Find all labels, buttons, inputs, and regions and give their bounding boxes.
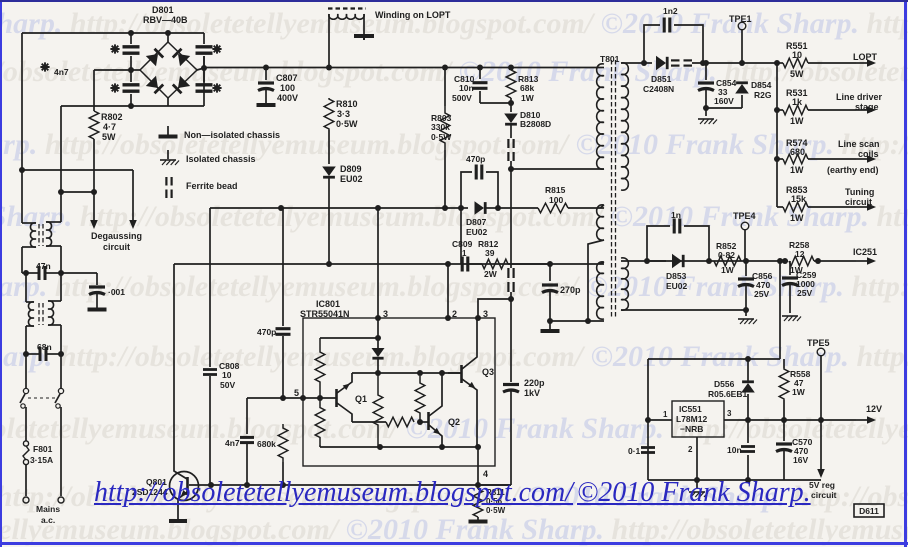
resistor R803 330k 0.5W — [442, 65, 448, 71]
IC551 pin 1 wire — [648, 419, 672, 421]
fuse F801 3.15A — [25, 407, 27, 441]
svg-text:Non—isolated chassis: Non—isolated chassis — [184, 130, 280, 140]
capacitor C259 1000 25V — [789, 261, 791, 275]
wire degauss branch upper — [22, 169, 133, 171]
svg-text:68n: 68n — [37, 342, 52, 352]
wire bridge left node — [94, 69, 140, 71]
degauss arrow right — [132, 170, 134, 221]
capacitor 4n7 marker with asterisk — [40, 62, 49, 71]
resistor R815 100 — [498, 207, 538, 209]
svg-text:47n: 47n — [36, 261, 51, 271]
capacitor C809 — [461, 257, 464, 272]
svg-text:1W: 1W — [790, 213, 804, 223]
svg-text:3: 3 — [383, 309, 388, 319]
svg-text:IC551: IC551 — [679, 404, 702, 414]
IC801 pin 3 — [375, 315, 381, 321]
ferrite bead on D851 output — [671, 59, 680, 61]
legend isolated chassis symbol — [167, 150, 169, 159]
capacitor X-cap bottom-left — [130, 70, 132, 82]
svg-text:C809: C809 — [452, 239, 473, 249]
svg-text:−NRB: −NRB — [680, 424, 703, 434]
svg-text:IC251: IC251 — [853, 247, 877, 257]
mains switch left pole — [25, 354, 27, 388]
resistor R258 12 1W to IC251 — [782, 258, 788, 264]
transistor Q801 2SD1244 — [170, 472, 199, 501]
diode D854 R2G — [735, 84, 749, 94]
diode D556 R05.6EB1 — [747, 359, 749, 381]
svg-text:1: 1 — [462, 249, 467, 258]
wire C808 column — [209, 208, 211, 367]
svg-text:TPE5: TPE5 — [807, 338, 830, 348]
capacitor 10n — [747, 420, 749, 443]
svg-text:EU02: EU02 — [466, 227, 488, 237]
svg-text:0·5W: 0·5W — [336, 119, 358, 129]
capacitor C570 470 16V — [783, 420, 785, 441]
wire secondary lower return — [621, 309, 746, 311]
wire right mains column upper — [60, 106, 62, 222]
resistor R551 10 5W to LOPT — [777, 62, 783, 64]
IC801 pin 1 — [475, 315, 481, 321]
svg-text:R2G: R2G — [754, 90, 772, 100]
legend non-isolated chassis symbol — [167, 126, 169, 135]
transistor Q2 — [427, 412, 430, 430]
svg-text:Degaussing: Degaussing — [91, 231, 142, 241]
svg-text:3·3: 3·3 — [337, 109, 350, 119]
svg-text:160V: 160V — [714, 96, 734, 106]
svg-text:10n: 10n — [727, 445, 742, 455]
svg-text:10: 10 — [222, 370, 232, 380]
asterisk mark — [110, 83, 119, 92]
svg-text:1n: 1n — [671, 210, 681, 220]
IC551 pin 2 ground — [696, 437, 698, 480]
resistor R558 47 1W — [783, 359, 785, 368]
svg-text:470p: 470p — [466, 154, 485, 164]
svg-text:TPE4: TPE4 — [733, 211, 756, 221]
wire mains right terminal — [60, 407, 62, 496]
wire rail B extension to 270p — [461, 263, 550, 265]
wire right column to 47n — [60, 246, 62, 273]
wire pin3 column — [377, 208, 379, 318]
capacitor X-cap bottom-right — [203, 70, 205, 82]
svg-text:400V: 400V — [277, 93, 298, 103]
svg-text:B2808D: B2808D — [520, 119, 551, 129]
svg-text:10: 10 — [792, 50, 802, 60]
svg-text:4n7: 4n7 — [225, 438, 240, 448]
T801 primary winding — [600, 67, 604, 69]
wire left mains column upper — [21, 33, 23, 223]
12V output arrow — [867, 416, 876, 424]
svg-text:330k: 330k — [431, 122, 450, 132]
resistor R853 15k 1W to tuning circuit — [783, 202, 808, 212]
capacitor 1n2 snubber loop — [644, 25, 660, 63]
resistor R813 68k 1W — [508, 65, 514, 71]
capacitor C856 470 25V — [745, 261, 747, 276]
svg-text:R815: R815 — [545, 185, 566, 195]
capacitor 270p with ground — [547, 261, 553, 267]
svg-text:680: 680 — [790, 147, 805, 157]
wire regulator top rail — [648, 358, 780, 360]
svg-text:D851: D851 — [651, 74, 672, 84]
IC801 pin 5 wire — [247, 397, 336, 399]
svg-text:1: 1 — [663, 410, 668, 419]
svg-text:1W: 1W — [790, 165, 804, 175]
wire TPE5 to 12V rail and 5V reg output — [820, 355, 822, 420]
svg-text:3·15A: 3·15A — [30, 455, 53, 465]
degauss arrow left — [93, 192, 95, 221]
diode D853 EU02 — [644, 258, 650, 264]
asterisk mark — [212, 44, 221, 53]
IC801 zener diode — [372, 348, 385, 357]
resistor R810 3.3 0.5W — [326, 65, 332, 71]
capacitor 47n — [23, 270, 29, 276]
capacitor C854 33 160V — [705, 63, 707, 80]
svg-text:1W: 1W — [721, 265, 735, 275]
transistor Q3 — [460, 365, 463, 383]
wire left column to 47n — [21, 247, 23, 273]
svg-text:EU02: EU02 — [666, 281, 688, 291]
IC801 right resistor — [415, 376, 425, 420]
wire rail B (startup rail) — [174, 263, 461, 265]
svg-text:R05.6EB1: R05.6EB1 — [708, 389, 747, 399]
svg-text:(earthy end): (earthy end) — [827, 165, 879, 175]
wire winding3 bottom rail — [550, 320, 604, 322]
diode D851 C2408N — [644, 62, 652, 64]
capacitor 470p — [276, 327, 291, 330]
wire base drive rail — [189, 484, 511, 486]
wire 12V rectifier rail — [621, 260, 647, 262]
T801 aux winding 3 — [597, 262, 604, 319]
wire regulator left column — [647, 359, 649, 480]
legend ferrite bead symbol — [165, 177, 167, 186]
svg-text:Isolated chassis: Isolated chassis — [186, 154, 256, 164]
svg-text:·001: ·001 — [108, 287, 125, 297]
svg-text:D809: D809 — [340, 164, 362, 174]
mains switch right pole — [60, 354, 62, 388]
svg-text:12V: 12V — [866, 404, 882, 414]
svg-text:39: 39 — [485, 248, 495, 258]
IC551 L78M12-NRB box — [672, 401, 724, 437]
svg-text:Line scan: Line scan — [838, 139, 880, 149]
IC801 inner bottom rail — [320, 446, 478, 448]
svg-text:D801: D801 — [152, 5, 174, 15]
wire winding2 return — [588, 240, 604, 321]
svg-text:D853: D853 — [666, 271, 687, 281]
svg-text:TPE1: TPE1 — [729, 14, 752, 24]
svg-text:RBV—40B: RBV—40B — [143, 15, 188, 25]
capacitor C810 10n 500V — [477, 65, 483, 71]
svg-text:Mains: Mains — [36, 504, 60, 514]
switch gang dashed link — [28, 397, 58, 399]
svg-text:STR55041N: STR55041N — [300, 309, 350, 319]
resistor R802 4.7 5W — [93, 70, 95, 111]
wire top AC bus — [22, 32, 204, 34]
svg-text:16V: 16V — [793, 455, 808, 465]
diode D807 EU02 — [461, 207, 468, 209]
svg-text:LOPT: LOPT — [853, 52, 878, 62]
svg-text:circuit: circuit — [811, 490, 837, 500]
svg-text:Tuning: Tuning — [845, 187, 874, 197]
svg-text:a.c.: a.c. — [41, 515, 55, 525]
capacitor .001 with ground — [96, 273, 98, 285]
svg-text:15k: 15k — [791, 194, 807, 204]
wire 470p/680k column — [282, 208, 284, 326]
svg-text:5W: 5W — [790, 69, 804, 79]
diode D810 B2808D — [510, 103, 512, 112]
T801 aux winding 2 — [597, 205, 604, 240]
transistor Q1 — [335, 389, 338, 407]
svg-text:68k: 68k — [520, 83, 534, 93]
svg-text:stage: stage — [855, 102, 879, 112]
svg-text:T801: T801 — [600, 54, 620, 64]
svg-text:circuit: circuit — [103, 242, 130, 252]
test point TPE1 — [738, 22, 746, 30]
svg-text:D854: D854 — [751, 80, 772, 90]
wire regulator feed column — [777, 258, 783, 264]
svg-text:Winding on LOPT: Winding on LOPT — [375, 10, 451, 20]
wire pin2 column — [447, 264, 449, 318]
svg-text:270p: 270p — [560, 285, 581, 295]
svg-text:1W: 1W — [792, 387, 806, 397]
svg-text:5: 5 — [294, 388, 299, 398]
svg-text:4·7: 4·7 — [103, 122, 116, 132]
svg-text:R802: R802 — [101, 112, 123, 122]
svg-text:L78M12: L78M12 — [676, 414, 707, 424]
svg-text:Line driver: Line driver — [836, 92, 883, 102]
svg-text:1k: 1k — [792, 97, 803, 107]
svg-text:2: 2 — [452, 309, 457, 319]
svg-text:3: 3 — [483, 309, 488, 319]
wire D807 node to C809 — [460, 208, 462, 264]
svg-text:4n7: 4n7 — [54, 67, 69, 77]
capacitor C807 100 400V — [263, 65, 269, 71]
svg-text:Q1: Q1 — [355, 394, 367, 404]
wire output ladder column — [776, 63, 778, 207]
line filter transformer lower — [25, 273, 27, 302]
wire secondary top to D851 — [621, 62, 644, 64]
wire rail A (D807 rail) — [210, 207, 461, 209]
resistor R812 39 2W — [469, 263, 482, 265]
asterisk mark — [110, 44, 119, 53]
svg-text:Q2: Q2 — [448, 417, 460, 427]
asterisk mark — [212, 83, 221, 92]
node dots bridge — [128, 30, 134, 36]
svg-text:D611: D611 — [859, 506, 879, 516]
wire to 0.01 cap — [61, 272, 97, 274]
IC551 pin 3 wire 12V rail — [724, 419, 856, 421]
svg-text:circuit: circuit — [845, 197, 872, 207]
capacitor C808 10 50V — [203, 368, 217, 371]
T801 secondary winding upper — [621, 63, 628, 190]
resistor R574 680 1W to line scan coils — [774, 156, 780, 162]
svg-text:EU02: EU02 — [340, 174, 363, 184]
capacitor 0.1 — [641, 446, 655, 449]
svg-text:2W: 2W — [484, 269, 498, 279]
test point TPE4 — [741, 222, 749, 230]
line filter transformer upper — [22, 222, 36, 224]
IC801 left resistor upper — [315, 338, 325, 396]
resistor R531 1k 1W to line driver — [774, 107, 780, 113]
svg-text:0·5W: 0·5W — [431, 132, 452, 142]
svg-text:100: 100 — [280, 83, 295, 93]
svg-text:D556: D556 — [714, 379, 735, 389]
diode D809 EU02 — [322, 167, 336, 177]
wire to primary bottom — [508, 166, 514, 172]
resistor 680k — [280, 395, 286, 401]
svg-text:10n: 10n — [459, 83, 474, 93]
IC801 centre resistor — [373, 373, 383, 447]
wire mains left terminal — [25, 464, 27, 496]
IC801 pin 4 — [477, 447, 479, 485]
svg-text:12: 12 — [795, 249, 805, 259]
capacitor 220p 1kV — [510, 299, 512, 382]
ground C854 — [705, 108, 707, 116]
svg-text:R810: R810 — [336, 99, 358, 109]
svg-text:1W: 1W — [790, 116, 804, 126]
wire regulator bottom rail — [648, 479, 821, 481]
svg-text:2: 2 — [688, 445, 693, 454]
capacitor 470p bypass loop — [461, 172, 472, 208]
winding on LOPT coil — [328, 14, 330, 68]
svg-text:C2408N: C2408N — [643, 84, 674, 94]
wire D810 column — [510, 161, 512, 268]
svg-text:D807: D807 — [466, 217, 487, 227]
svg-text:680k: 680k — [257, 439, 276, 449]
wire bridge right node to bus — [197, 68, 204, 70]
svg-text:C807: C807 — [276, 73, 298, 83]
svg-text:500V: 500V — [452, 93, 472, 103]
svg-text:100: 100 — [549, 195, 563, 205]
T801 secondary winding lower — [621, 258, 628, 310]
IC801 emitter resistor horizontal — [352, 421, 386, 423]
IC801 mid rail — [352, 372, 462, 374]
wire pin1 jumper to snubber column — [478, 299, 511, 318]
svg-text:3: 3 — [727, 409, 732, 418]
capacitor X-cap top-left — [130, 33, 132, 44]
wire main HT bus — [204, 67, 600, 69]
sheet reference D611 — [854, 504, 884, 517]
svg-text:25V: 25V — [797, 288, 812, 298]
transformer T801 core — [612, 60, 616, 318]
svg-text:470p: 470p — [257, 327, 276, 337]
svg-text:0·1: 0·1 — [628, 446, 641, 456]
svg-text:5V reg: 5V reg — [809, 480, 835, 490]
svg-text:Q3: Q3 — [482, 367, 494, 377]
resistor R811 0.56 0.5W — [477, 485, 479, 489]
svg-text:F801: F801 — [33, 444, 53, 454]
svg-text:1W: 1W — [521, 93, 535, 103]
test point TPE5 — [817, 348, 825, 356]
svg-text:25V: 25V — [754, 289, 769, 299]
IC801 inner top rail — [377, 318, 379, 338]
ground C856 — [745, 310, 747, 316]
wire bottom AC rail — [61, 105, 204, 107]
svg-text:Ferrite bead: Ferrite bead — [186, 181, 238, 191]
svg-text:5W: 5W — [102, 132, 116, 142]
IC801 pin 2 — [445, 315, 451, 321]
bridge rectifier D801 RBV-40B — [140, 42, 197, 98]
IC801 STR55041N box — [303, 318, 495, 466]
wire degauss branch lower — [61, 191, 94, 193]
capacitor 68n — [25, 326, 27, 354]
capacitor 4n7 — [246, 398, 248, 434]
svg-text:IC801: IC801 — [316, 299, 340, 309]
svg-text:1n2: 1n2 — [663, 6, 678, 16]
wire HT output rail — [692, 62, 777, 64]
IC801 left resistor lower — [315, 400, 325, 445]
svg-text:220p: 220p — [524, 378, 545, 388]
capacitor 1n snubber loop — [647, 226, 670, 261]
svg-text:50V: 50V — [220, 380, 235, 390]
capacitor X-cap top-right — [203, 33, 205, 44]
resistor R852 0.82 1W — [714, 256, 741, 266]
ferrite bead lower — [507, 268, 509, 278]
svg-text:0·82: 0·82 — [718, 250, 735, 260]
ferrite bead on D810 leg — [507, 139, 509, 148]
svg-text:1kV: 1kV — [524, 388, 540, 398]
svg-text:coils: coils — [858, 149, 879, 159]
